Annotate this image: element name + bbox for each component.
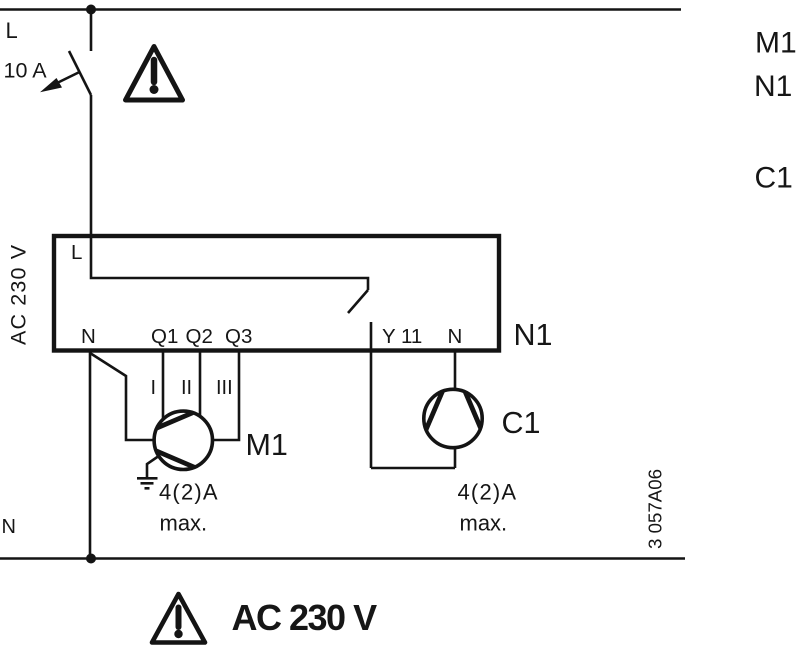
svg-text:C1: C1 [502,406,541,440]
svg-text:10 A: 10 A [4,59,48,83]
svg-text:I: I [151,377,157,399]
svg-text:M1: M1 [246,428,288,462]
svg-text:N: N [2,516,16,538]
svg-text:4(2)A: 4(2)A [458,480,518,505]
svg-text:III: III [216,377,233,399]
svg-text:N: N [81,325,96,348]
svg-text:3 057A06: 3 057A06 [645,469,666,549]
svg-text:AC 230 V: AC 230 V [7,244,31,345]
svg-text:II: II [181,377,192,399]
svg-text:Q2: Q2 [186,325,213,348]
svg-text:C1: C1 [755,162,793,195]
svg-text:Y 11: Y 11 [382,325,422,348]
svg-text:max.: max. [460,511,508,536]
svg-text:4(2)A: 4(2)A [159,480,219,505]
svg-text:L: L [71,241,82,264]
svg-text:Q3: Q3 [225,325,252,348]
svg-text:AC 230 V: AC 230 V [232,597,378,638]
svg-text:N1: N1 [514,318,553,352]
svg-text:N: N [448,325,463,348]
svg-text:max.: max. [160,511,208,536]
svg-text:M1: M1 [755,27,797,60]
svg-text:L: L [6,18,18,43]
svg-text:Q1: Q1 [151,325,178,348]
svg-text:N1: N1 [754,70,792,103]
